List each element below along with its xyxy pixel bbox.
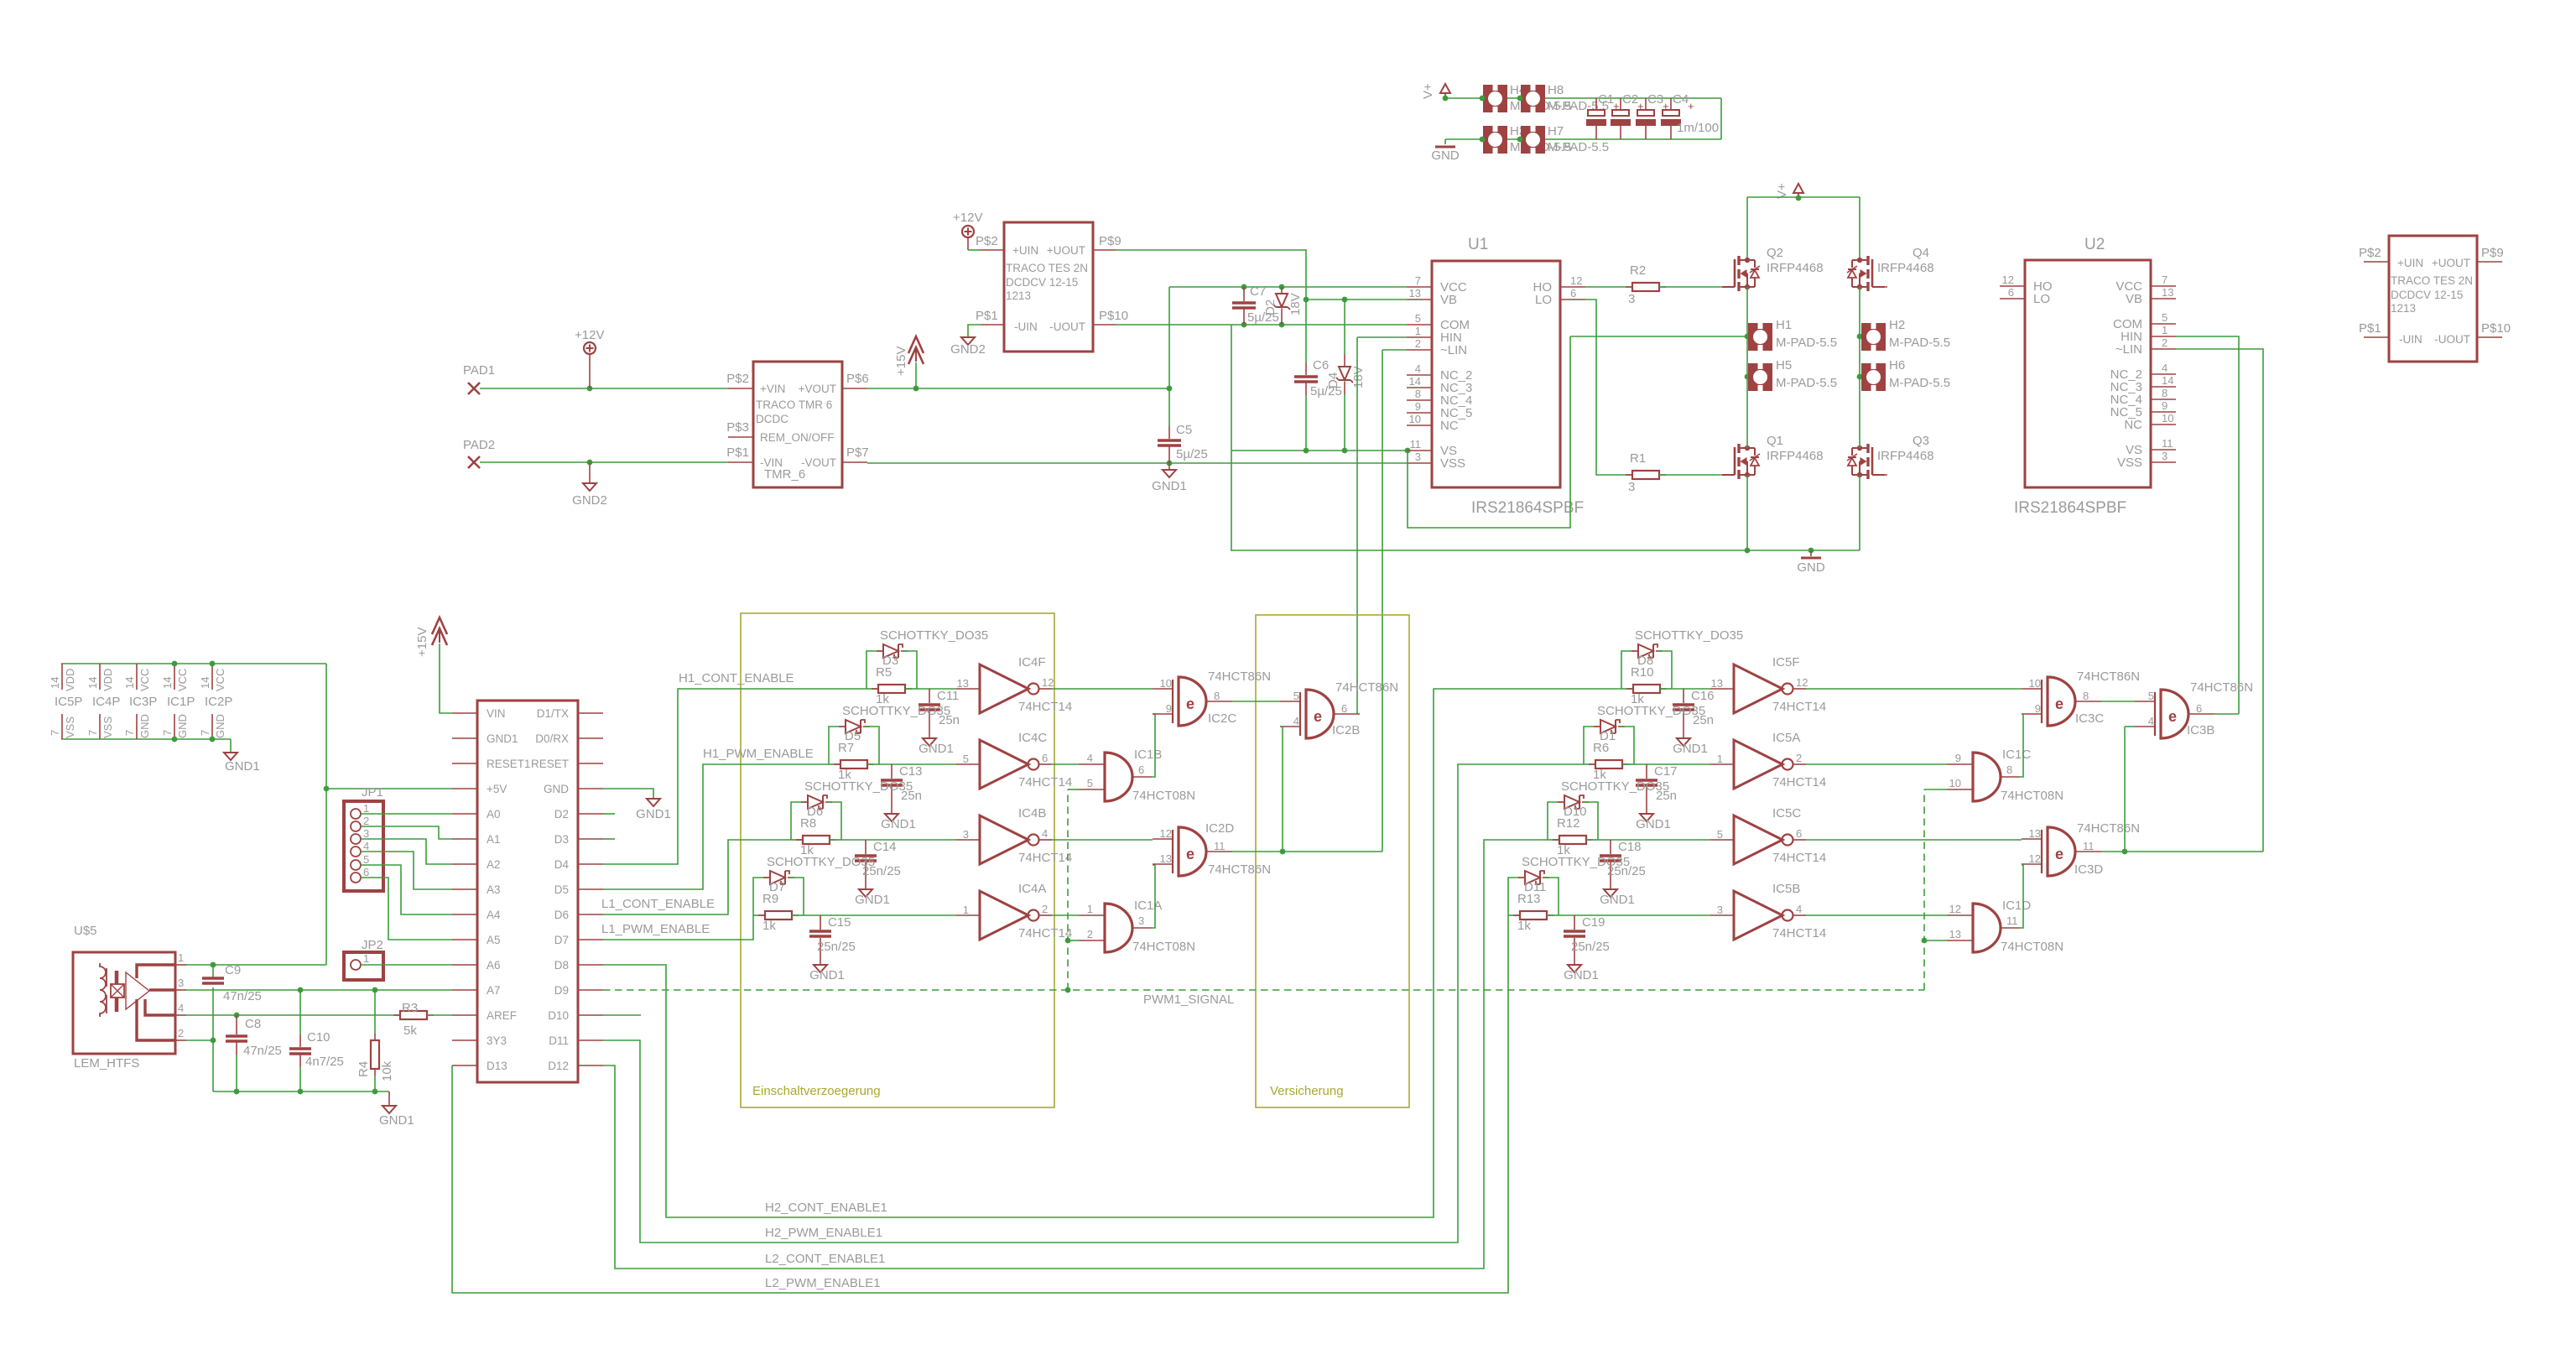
svg-text:5: 5 (2148, 690, 2154, 702)
svg-text:IC5C: IC5C (1772, 806, 1801, 821)
power symbol IC5P (61, 664, 63, 690)
svg-text:V+: V+ (1421, 83, 1435, 99)
pin 7 VCC of U2 (2151, 285, 2176, 287)
wire U2 ~LIN (2176, 349, 2263, 852)
ground GND1 (under C5) (1168, 463, 1170, 470)
svg-text:+UIN: +UIN (2397, 257, 2423, 269)
svg-text:10: 10 (2162, 412, 2173, 425)
svg-text:VSS: VSS (101, 716, 114, 738)
wire IC4F out to IC2C.10 (1052, 688, 1153, 690)
pad H1 M-PAD-5.5 (1748, 323, 1772, 351)
wire JP1.3 to A2 (361, 839, 452, 864)
svg-text:9: 9 (1955, 752, 1961, 764)
svg-text:GND1: GND1 (225, 759, 260, 774)
svg-text:H2_CONT_ENABLE1: H2_CONT_ENABLE1 (765, 1201, 887, 1215)
svg-text:GND: GND (544, 783, 569, 795)
svg-text:13: 13 (1711, 677, 1723, 690)
pin A3 of MCU (452, 888, 477, 890)
svg-text:P$10: P$10 (1099, 309, 1128, 323)
pin 4 NC_2 of U1 (1407, 374, 1432, 376)
svg-text:74HCT14: 74HCT14 (1772, 851, 1826, 865)
wire IC4A out to IC1A.1 (1052, 914, 1079, 916)
wire GND pin to GND1 (603, 789, 653, 799)
svg-text:SCHOTTKY_DO35: SCHOTTKY_DO35 (767, 855, 875, 869)
xor gate IC3C 74HCT86N (2048, 677, 2075, 726)
wire JP1.2 to A1 (361, 826, 452, 839)
wire left leg top (1746, 197, 1748, 261)
pin 10 NC of U1 (1407, 425, 1432, 426)
svg-text:SCHOTTKY_DO35: SCHOTTKY_DO35 (1635, 628, 1743, 643)
pin 14 NC_3 of U2 (2151, 386, 2176, 388)
svg-text:JP2: JP2 (362, 938, 383, 952)
wire IC2C out to IC2B.5 (1232, 701, 1280, 702)
wire V+ top rail (1445, 97, 1721, 99)
svg-text:TMR_6: TMR_6 (764, 467, 805, 482)
pin D1/TX of MCU (578, 712, 603, 714)
svg-text:M-PAD-5.5: M-PAD-5.5 (1548, 140, 1609, 154)
svg-text:1: 1 (2162, 324, 2167, 336)
pin 6 LO of U1 (1560, 299, 1585, 300)
diode D11 SCHOTTKY_DO35 (1508, 878, 1525, 915)
inverter IC4B 74HCT14 (980, 815, 1028, 864)
svg-text:74HCT08N: 74HCT08N (1132, 940, 1195, 954)
svg-text:74HCT14: 74HCT14 (1018, 775, 1072, 789)
svg-text:P$2: P$2 (2359, 246, 2381, 260)
capacitor C1 (polarized 1m/100) (1595, 98, 1597, 110)
svg-text:6: 6 (1138, 763, 1144, 776)
svg-text:R1: R1 (1630, 451, 1646, 466)
wire D12 to right row3 (603, 840, 1548, 1269)
svg-text:TRACO TES 2N: TRACO TES 2N (2391, 274, 2473, 287)
xor gate IC3D 74HCT86N (2048, 827, 2075, 876)
svg-text:IC1B: IC1B (1134, 748, 1162, 762)
wire PWM1 riser left (1067, 789, 1069, 990)
svg-text:74HCT14: 74HCT14 (1772, 700, 1826, 714)
ground GND2 (PAD2) (589, 462, 591, 483)
svg-text:5: 5 (1717, 828, 1723, 841)
power symbol IC4P (99, 664, 101, 690)
diode D6 SCHOTTKY_DO35 (791, 802, 808, 840)
svg-text:e: e (2055, 846, 2063, 862)
wire JP1.5 to A4 (361, 865, 452, 914)
svg-text:13: 13 (2162, 286, 2173, 299)
transistor Q4 IRFP4468 (1872, 286, 1885, 288)
svg-text:DCDCV 12-15: DCDCV 12-15 (1006, 276, 1078, 289)
svg-text:D9: D9 (554, 984, 569, 997)
wire IC3D out to U2 ~LIN riser (2101, 851, 2263, 852)
inverter IC5F 74HCT14 (1734, 664, 1782, 713)
and gate IC1D 74HCT08N (1973, 904, 2001, 952)
dc-dc converter TMR_6 (TRACO TMR 6 DCDC) (753, 362, 842, 487)
svg-text:3: 3 (1138, 914, 1144, 927)
svg-text:GND1: GND1 (881, 817, 916, 831)
svg-text:8: 8 (1214, 690, 1220, 702)
svg-text:C5: C5 (1176, 423, 1192, 437)
svg-text:1: 1 (178, 951, 184, 964)
svg-text:R8: R8 (800, 816, 816, 831)
svg-text:+UIN: +UIN (1012, 244, 1038, 257)
wire left leg middle (1746, 287, 1748, 448)
net PWM1_SIGNAL dashed wire (603, 989, 1924, 991)
wire phase node to VS (1570, 336, 1747, 337)
power symbol IC3P (136, 664, 138, 690)
wire ~LIN from logic (1382, 349, 1407, 351)
wire HIN from logic (1357, 336, 1407, 338)
transistor Q1 IRFP4468 (1722, 474, 1735, 476)
pin 2 ~LIN of U1 (1407, 349, 1432, 351)
svg-text:5: 5 (2162, 311, 2167, 324)
pin 6 LO of U2 (2000, 298, 2025, 300)
svg-text:VCC: VCC (176, 669, 189, 691)
pad H4 M-PAD-5.5 (1483, 85, 1507, 112)
wire right leg middle (1859, 287, 1860, 448)
svg-text:V+: V+ (1775, 183, 1789, 199)
svg-text:IC1P: IC1P (167, 695, 195, 709)
svg-text:GND1: GND1 (809, 968, 845, 982)
svg-text:7: 7 (2162, 274, 2167, 286)
ground GND (bridge) (1810, 550, 1812, 556)
wire P$9 to VB (1116, 250, 1306, 300)
ground GND1 (under C11) (923, 738, 936, 746)
supply +15V (MCU VIN) (432, 617, 447, 634)
wire COM down to bridge ground (1231, 325, 1232, 551)
svg-text:~LIN: ~LIN (1440, 343, 1467, 357)
svg-text:18V: 18V (1288, 293, 1303, 315)
pad H8 M-PAD-5.5 (1521, 85, 1545, 112)
svg-text:D4: D4 (1326, 373, 1340, 388)
svg-text:10k: 10k (380, 1060, 394, 1081)
supply +12V (at TES1) (962, 226, 974, 237)
svg-text:4: 4 (1042, 827, 1048, 840)
svg-text:1: 1 (1415, 325, 1421, 337)
svg-text:9: 9 (1166, 702, 1172, 715)
wire D6 to row3 (603, 840, 791, 914)
svg-text:e: e (1186, 696, 1194, 712)
resistor R5 1k (866, 688, 878, 690)
svg-text:18V: 18V (1351, 366, 1366, 388)
svg-text:IRS21864SPBF: IRS21864SPBF (2014, 499, 2126, 517)
svg-text:R7: R7 (838, 741, 854, 755)
svg-text:3: 3 (1717, 904, 1723, 916)
and gate IC1B 74HCT08N (1105, 753, 1132, 801)
svg-text:8: 8 (2006, 763, 2012, 776)
svg-text:13: 13 (1160, 852, 1172, 865)
svg-text:GND1: GND1 (1600, 893, 1635, 907)
svg-text:R10: R10 (1631, 665, 1654, 680)
pin 1 HIN of U2 (2151, 336, 2176, 337)
capacitor C15 25n/25 (820, 915, 821, 930)
svg-text:NC: NC (2124, 418, 2142, 432)
svg-text:5k: 5k (403, 1024, 417, 1038)
svg-text:IC1A: IC1A (1134, 899, 1162, 913)
diode D5 SCHOTTKY_DO35 (829, 727, 846, 764)
wire +5V to MCU (326, 788, 452, 789)
frame Versicherung (1256, 615, 1409, 1107)
dc-dc converter TES2 (TRACO TES 2N DCDCV 12-15 1213) (2389, 236, 2477, 362)
wire IC5A out to IC1C.9 (1806, 763, 1947, 765)
svg-text:D7: D7 (554, 934, 569, 946)
svg-text:DCDC: DCDC (756, 413, 788, 425)
wire VS net (1231, 450, 1407, 451)
svg-text:SCHOTTKY_DO35: SCHOTTKY_DO35 (1561, 779, 1669, 794)
svg-text:11: 11 (1214, 840, 1226, 852)
pin 2 ~LIN of U2 (2151, 348, 2176, 350)
svg-text:1213: 1213 (2391, 302, 2416, 315)
wire D11 to right row2 (603, 764, 1584, 1243)
svg-text:H8: H8 (1548, 83, 1564, 97)
svg-text:Q2: Q2 (1767, 246, 1783, 260)
pin 12 HO of U1 (1560, 286, 1585, 288)
wire P$6 +15V net (867, 388, 1169, 389)
svg-text:4: 4 (1087, 752, 1093, 764)
svg-text:C11: C11 (937, 689, 959, 703)
svg-text:C8: C8 (245, 1017, 261, 1031)
wire VCC top rail (logic supply) (61, 663, 326, 664)
pin D6 of MCU (578, 914, 603, 915)
svg-text:SCHOTTKY_DO35: SCHOTTKY_DO35 (804, 779, 913, 794)
pin P$9 of TES1 (1093, 249, 1116, 251)
svg-text:4: 4 (2148, 715, 2154, 727)
ground GND1 (under C13) (885, 814, 898, 821)
svg-text:7: 7 (1415, 274, 1421, 287)
pin 1 of U$5 (175, 964, 186, 966)
xor gate IC2D 74HCT86N (1179, 827, 1206, 876)
svg-text:GND1: GND1 (1673, 742, 1708, 756)
svg-text:GND1: GND1 (487, 732, 518, 745)
capacitor C2 (polarized 1m/100) (1620, 98, 1621, 110)
pin 14 NC_3 of U1 (1407, 387, 1432, 388)
svg-text:13: 13 (1949, 928, 1961, 940)
wire D3 stub (603, 838, 615, 840)
svg-text:SCHOTTKY_DO35: SCHOTTKY_DO35 (1522, 855, 1630, 869)
svg-text:A6: A6 (487, 959, 501, 972)
svg-text:U$5: U$5 (74, 924, 97, 938)
svg-text:TRACO TES 2N: TRACO TES 2N (1006, 262, 1088, 274)
supply +15V (near TMR) (908, 336, 924, 353)
svg-text:1213: 1213 (1006, 289, 1031, 302)
pin D0/RX of MCU (578, 737, 603, 739)
svg-text:14: 14 (2162, 374, 2173, 387)
svg-text:P$1: P$1 (726, 445, 749, 460)
pin 1 of JP2 (351, 960, 361, 970)
svg-text:7: 7 (49, 730, 61, 736)
wire left leg bottom (1746, 475, 1748, 550)
pin 9 NC_5 of U2 (2151, 411, 2176, 413)
svg-text:A3: A3 (487, 883, 501, 896)
wire D5 to row2 (603, 764, 829, 889)
svg-text:GND1: GND1 (855, 893, 890, 907)
svg-text:NC: NC (1440, 419, 1459, 433)
capacitor C11 25n (929, 689, 930, 703)
ground GND2 (TES1) (968, 325, 981, 337)
capacitor C6 5u/25 (1305, 300, 1307, 362)
svg-text:+: + (1688, 100, 1694, 112)
svg-text:RESET1: RESET1 (487, 758, 531, 770)
svg-text:Q3: Q3 (1912, 434, 1929, 448)
wire R9 output to inverter (804, 914, 956, 916)
svg-text:LEM_HTFS: LEM_HTFS (74, 1056, 139, 1071)
svg-text:IC4B: IC4B (1018, 806, 1046, 821)
svg-text:12: 12 (1042, 676, 1054, 689)
resistor R8 1k (791, 839, 803, 841)
svg-text:e: e (2055, 696, 2063, 712)
svg-text:8: 8 (2162, 387, 2167, 399)
svg-text:IC3B: IC3B (2187, 723, 2214, 737)
svg-text:14: 14 (123, 677, 136, 689)
svg-text:e: e (2168, 708, 2177, 725)
inverter IC4F 74HCT14 (980, 664, 1028, 713)
svg-text:C10: C10 (307, 1030, 330, 1045)
power symbol IC1P (174, 664, 175, 690)
capacitor C17 25n (1646, 764, 1647, 779)
svg-text:R5: R5 (876, 665, 892, 680)
wire JP1.4 to A3 (361, 852, 452, 889)
svg-text:-VOUT: -VOUT (801, 456, 836, 469)
wire VCC riser (1168, 287, 1170, 388)
svg-text:H2_PWM_ENABLE1: H2_PWM_ENABLE1 (765, 1226, 882, 1240)
svg-text:1k: 1k (1517, 919, 1531, 933)
pin D8 of MCU (578, 964, 603, 966)
svg-text:D2: D2 (1263, 300, 1278, 315)
svg-text:TRACO TMR 6: TRACO TMR 6 (756, 399, 832, 411)
svg-text:VDD: VDD (101, 669, 114, 691)
svg-text:P$1: P$1 (2359, 321, 2381, 336)
diode D1 SCHOTTKY_DO35 (1584, 727, 1600, 764)
svg-text:12: 12 (1160, 827, 1172, 840)
svg-text:C7: C7 (1250, 284, 1266, 299)
pin P$2 of TMR_6 (728, 388, 753, 389)
wire R10 output to inverter (1672, 688, 1710, 690)
inverter IC5C 74HCT14 (1734, 815, 1782, 864)
svg-text:PWM1_SIGNAL: PWM1_SIGNAL (1143, 992, 1234, 1007)
inverter IC5A 74HCT14 (1734, 740, 1782, 789)
svg-text:12: 12 (1796, 676, 1808, 689)
wire IC1C out to IC3C.9 (2020, 714, 2023, 777)
wire IC4C out to IC1B.4 (1052, 763, 1079, 765)
svg-text:L2_PWM_ENABLE1: L2_PWM_ENABLE1 (765, 1276, 881, 1290)
svg-text:GND1: GND1 (1152, 479, 1187, 493)
svg-text:4: 4 (363, 840, 369, 852)
svg-text:D5: D5 (554, 883, 569, 896)
pin VIN of MCU (452, 712, 477, 714)
svg-text:VDD: VDD (64, 669, 76, 691)
svg-text:R9: R9 (762, 892, 778, 906)
wire U$5.4 to R3 (186, 1014, 400, 1016)
wire D7 to row4 (603, 915, 753, 940)
svg-text:6: 6 (1341, 702, 1347, 715)
svg-text:P$2: P$2 (976, 234, 998, 248)
svg-text:GND1: GND1 (636, 807, 671, 821)
pin P$2 of TES1 (981, 249, 1004, 251)
svg-text:GND2: GND2 (950, 342, 986, 357)
svg-text:7: 7 (199, 730, 211, 736)
svg-text:4: 4 (2162, 362, 2167, 374)
svg-text:Q1: Q1 (1767, 434, 1783, 448)
svg-text:RESET: RESET (531, 758, 569, 770)
svg-text:5µ/25: 5µ/25 (1176, 447, 1208, 461)
gate driver U2 IRS21864SPBF (2025, 260, 2151, 487)
svg-text:VSS: VSS (1440, 456, 1465, 471)
pin D10 of MCU (578, 1014, 603, 1016)
pin P$10 of TES1 (1093, 324, 1116, 326)
svg-text:C14: C14 (873, 840, 897, 854)
svg-text:Q4: Q4 (1912, 246, 1929, 260)
svg-text:74HCT14: 74HCT14 (1772, 926, 1826, 940)
svg-text:C17: C17 (1654, 764, 1678, 779)
resistor R10 1k (1621, 688, 1633, 690)
supply V+ (bridge) (1793, 184, 1803, 193)
svg-text:IC1D: IC1D (2002, 899, 2031, 913)
pin P$7 of TMR_6 (842, 461, 867, 463)
svg-text:C18: C18 (1618, 840, 1642, 854)
wire PAD2 to TMR -VIN (480, 461, 728, 463)
svg-text:VCC: VCC (138, 669, 151, 691)
svg-text:A2: A2 (487, 858, 501, 871)
wire IC4B out to IC2D.12 (1052, 839, 1153, 841)
wire D13 to right row4 (452, 915, 1508, 1293)
svg-text:3: 3 (178, 977, 184, 989)
wire R5 output to inverter (917, 688, 956, 690)
svg-text:VSS: VSS (64, 716, 76, 738)
svg-text:C15: C15 (828, 915, 851, 930)
svg-text:IC2D: IC2D (1205, 821, 1234, 836)
pin A1 of MCU (452, 838, 477, 840)
pin 3 VSS of U2 (2151, 461, 2176, 463)
pin 7 VCC of U1 (1407, 286, 1432, 288)
svg-text:D6: D6 (554, 909, 569, 921)
supply +12V (at PAD1) (584, 342, 596, 354)
svg-text:11: 11 (2083, 840, 2095, 852)
pin 6 of JP1 (351, 873, 361, 883)
svg-text:1k: 1k (762, 919, 776, 933)
svg-text:3: 3 (1628, 292, 1635, 306)
svg-text:P$10: P$10 (2481, 321, 2511, 336)
microcontroller module (Arduino nano) (477, 701, 578, 1082)
svg-text:IRFP4468: IRFP4468 (1877, 449, 1934, 463)
wire HO gate wire (1585, 286, 1633, 288)
svg-text:C9: C9 (225, 963, 241, 977)
svg-text:IRFP4468: IRFP4468 (1767, 261, 1824, 275)
svg-text:1: 1 (1717, 753, 1723, 765)
svg-text:-UOUT: -UOUT (2434, 333, 2470, 346)
svg-text:11: 11 (1410, 438, 1422, 451)
svg-text:9: 9 (1415, 400, 1421, 413)
svg-text:74HCT14: 74HCT14 (1018, 700, 1072, 714)
svg-text:P$6: P$6 (846, 372, 869, 386)
svg-text:AREF: AREF (487, 1009, 517, 1022)
svg-text:e: e (1314, 708, 1322, 725)
svg-text:5: 5 (1415, 312, 1421, 325)
svg-text:R13: R13 (1517, 892, 1541, 906)
svg-text:D1/TX: D1/TX (537, 707, 569, 720)
pin A5 of MCU (452, 939, 477, 940)
svg-text:D4: D4 (554, 858, 570, 871)
svg-text:1m/100: 1m/100 (1677, 121, 1719, 135)
svg-text:H2: H2 (1889, 318, 1905, 332)
svg-text:~LIN: ~LIN (2115, 342, 2142, 357)
capacitor C9 47n/25 (212, 965, 214, 978)
pin P$2 of TES2 (2364, 261, 2389, 263)
svg-text:74HCT86N: 74HCT86N (1335, 680, 1398, 695)
capacitor C8 47n/25 (236, 1015, 237, 1034)
capacitor C3 (polarized 1m/100) (1645, 98, 1647, 110)
svg-text:R4: R4 (356, 1061, 371, 1077)
svg-text:3: 3 (963, 828, 969, 841)
pin 5 COM of U2 (2151, 323, 2176, 325)
resistor R9 1k (753, 914, 765, 916)
svg-text:6: 6 (2008, 286, 2014, 299)
wire D8 to right row1 (603, 689, 1621, 1217)
